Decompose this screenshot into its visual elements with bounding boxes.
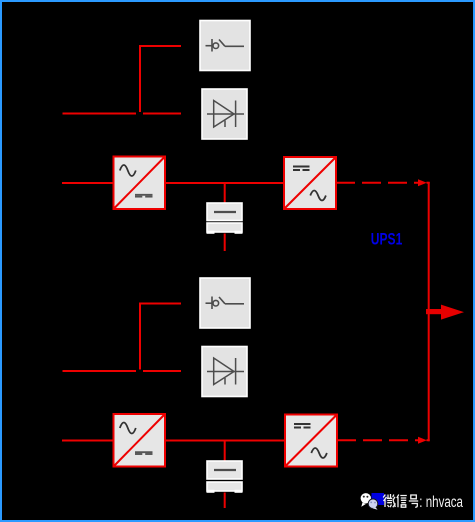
inverter U1I (DC/AC converter) <box>284 157 336 209</box>
thyristor V2 (bypass SCR box) <box>202 347 247 397</box>
wire bypass input line U1 (left segment) <box>63 113 137 115</box>
wire L bypass feed U1 (vertical + top horizontal) <box>140 46 181 112</box>
wire inverter output dashed U1 <box>336 182 418 184</box>
switch Q2 (static bypass switch box) <box>200 278 250 328</box>
watermark text 微信号: nhvaca <box>383 494 463 511</box>
watermark wechat icon <box>361 493 378 510</box>
node output bus vertical <box>428 182 430 441</box>
wire battery stub bottom U1 <box>224 234 226 252</box>
svg-text:UPS1: UPS1 <box>371 231 403 249</box>
glyph hao <box>409 495 418 507</box>
wire DC link U1 <box>165 182 285 184</box>
wire battery stub top U2 <box>224 441 226 462</box>
glyph xin <box>397 495 407 508</box>
switch Q1 (static bypass switch box) <box>200 21 250 71</box>
arrowhead U1 output <box>418 179 427 186</box>
battery GB2 <box>207 461 243 493</box>
wire mains input U2 <box>62 440 114 442</box>
rectifier U1R (AC/DC converter) <box>114 157 166 210</box>
thyristor V1 (bypass SCR box) <box>202 89 247 139</box>
wire L bypass feed U2 <box>140 304 181 370</box>
inverter U2I (DC/AC converter) <box>285 415 337 467</box>
wire bypass input line U2 (left segment) <box>63 370 137 372</box>
arrowhead U2 output <box>418 437 427 444</box>
wire DC link U2 <box>165 440 286 442</box>
arrow load output (thick) <box>426 305 464 320</box>
wire inverter output dashed U2 <box>337 439 418 441</box>
rectifier U2R (AC/DC converter) <box>114 414 166 467</box>
label UPS2 remnant (behind watermark) <box>372 493 385 505</box>
wire bypass input line U2 (right segment) <box>143 370 181 372</box>
glyph wei <box>383 494 395 507</box>
wire battery stub top U1 <box>224 183 226 203</box>
battery GB1 <box>207 203 243 234</box>
svg-text:: nhvaca: : nhvaca <box>419 494 463 511</box>
wire mains input U1 <box>62 182 114 184</box>
wire bypass input line U1 (right segment) <box>143 113 181 115</box>
wire battery stub bottom U2 <box>224 493 226 509</box>
